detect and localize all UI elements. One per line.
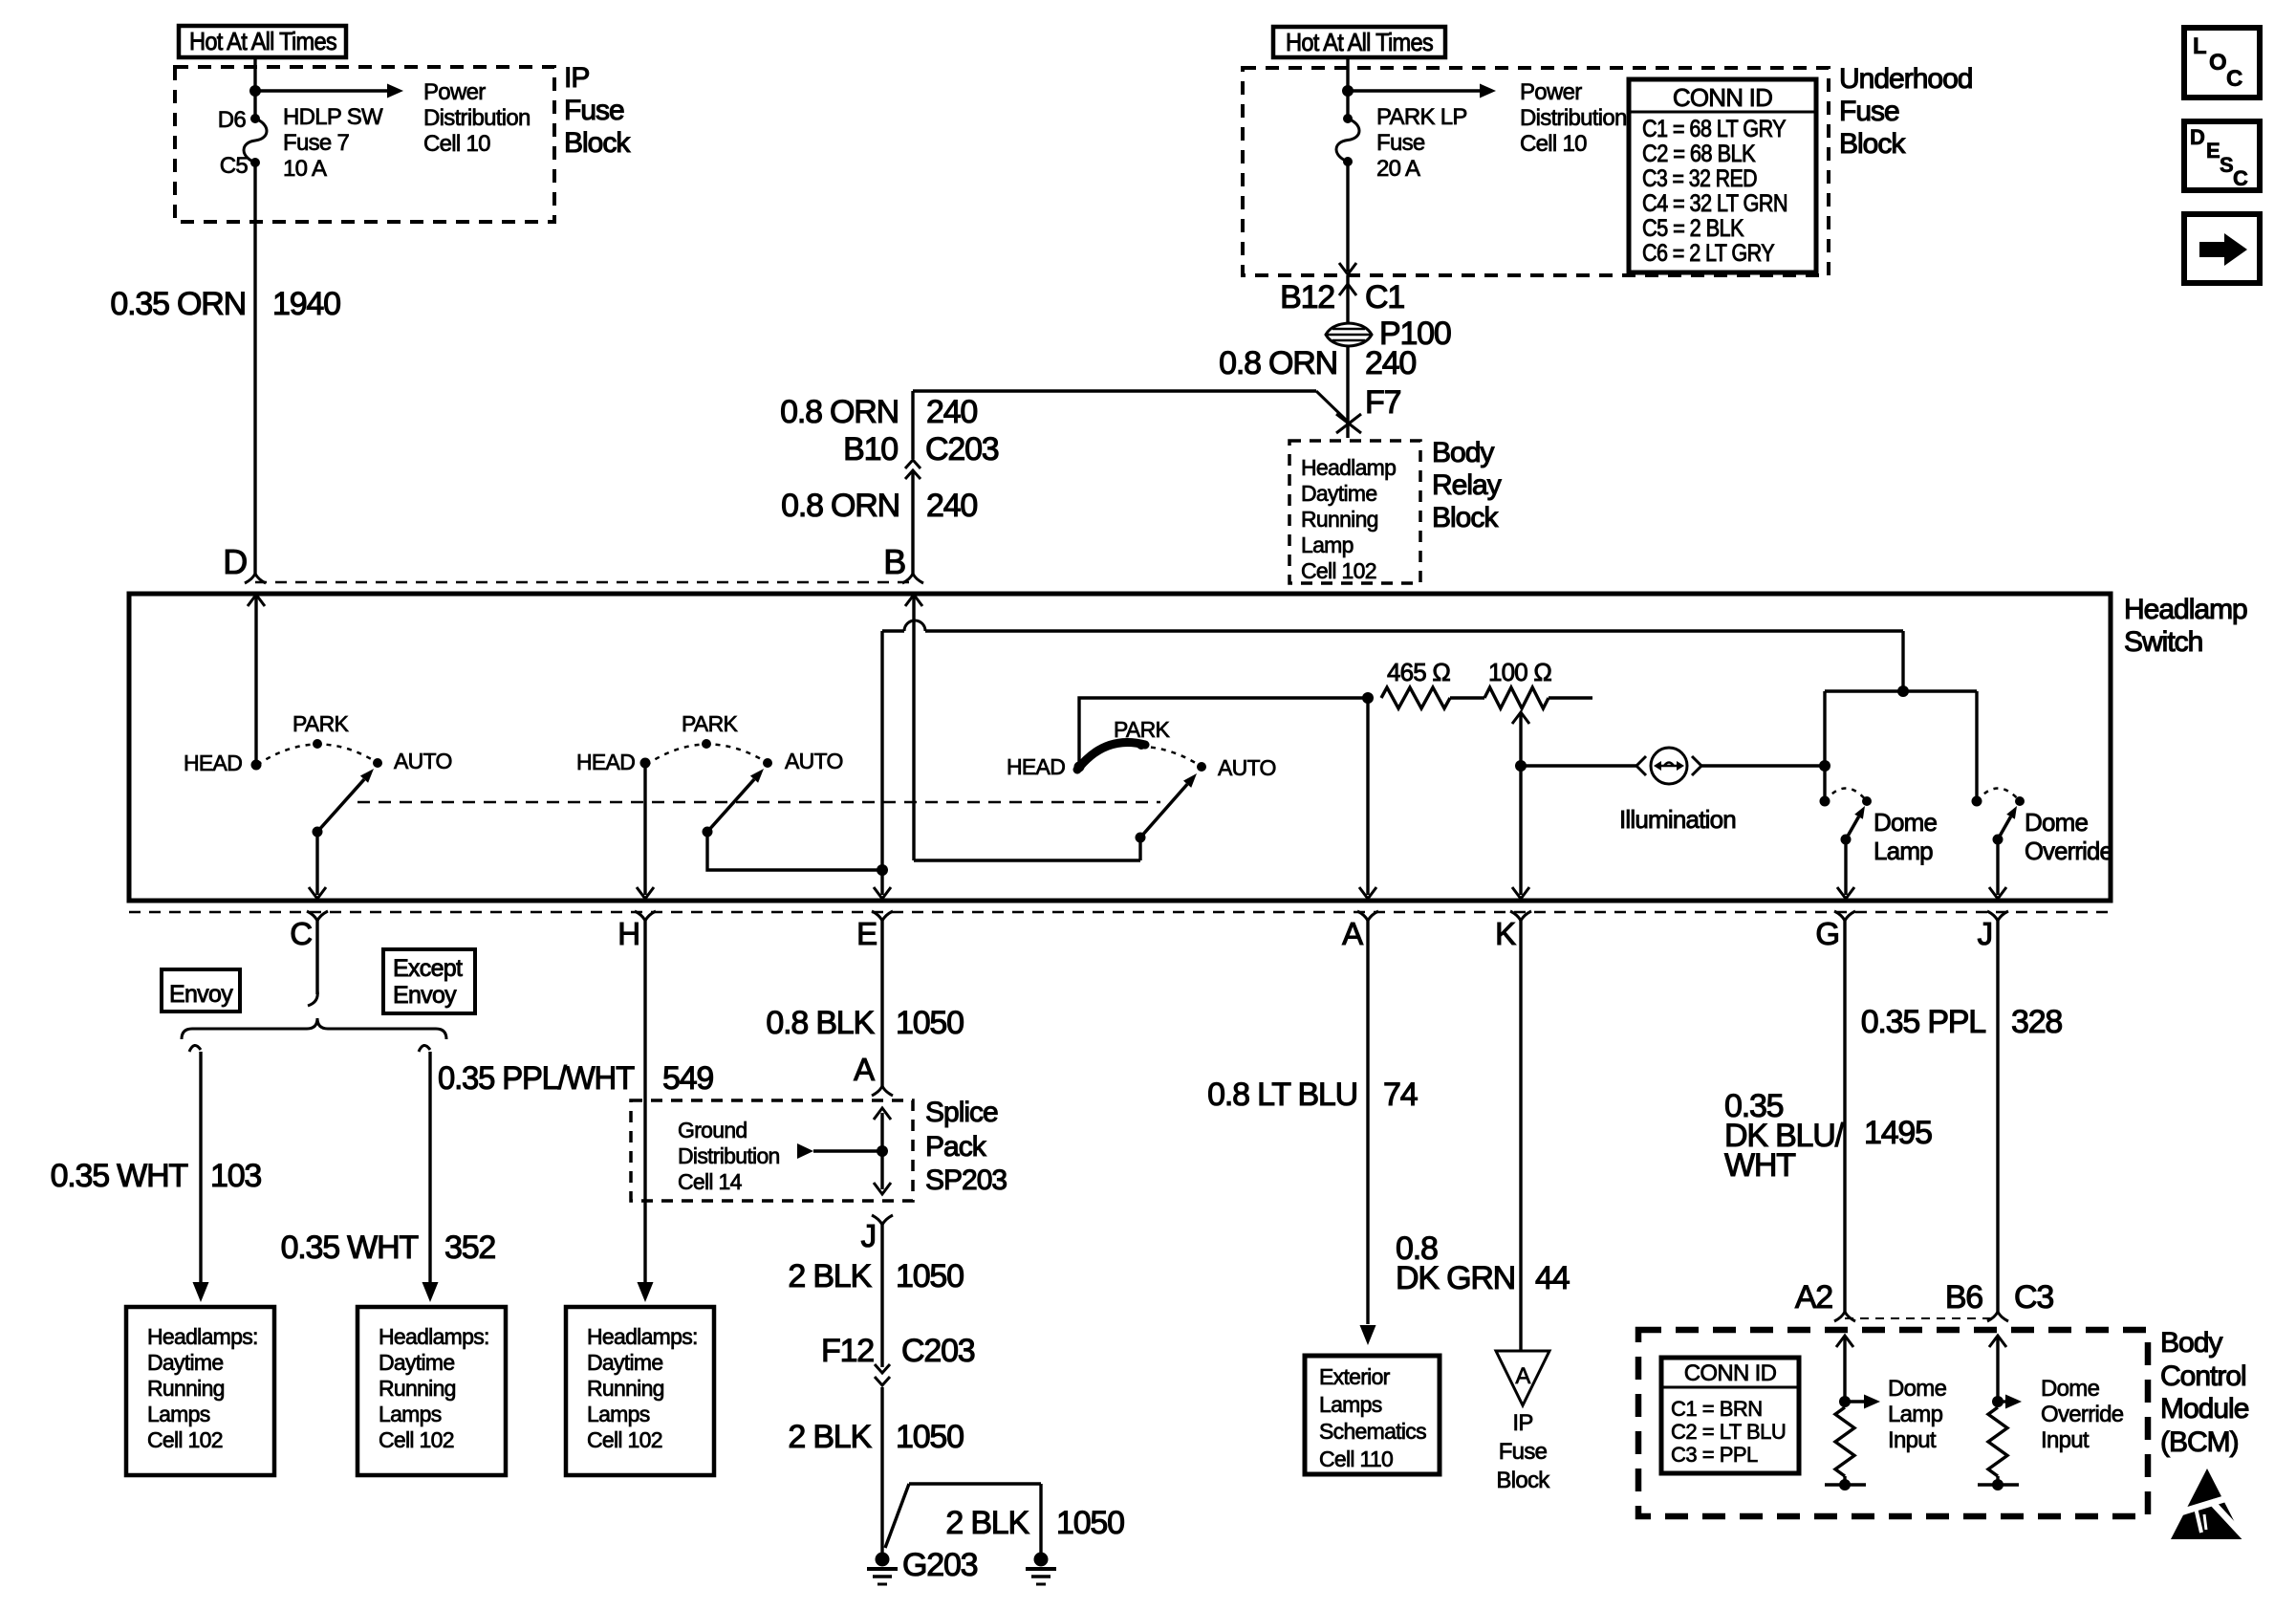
svg-text:Headlamps:: Headlamps: bbox=[147, 1324, 258, 1349]
svg-text:352: 352 bbox=[444, 1229, 495, 1266]
svg-text:C1 = BRN: C1 = BRN bbox=[1671, 1397, 1763, 1421]
svg-text:240: 240 bbox=[926, 488, 977, 524]
svg-text:Body: Body bbox=[2160, 1327, 2222, 1359]
svg-text:F12: F12 bbox=[821, 1333, 874, 1369]
svg-text:G: G bbox=[1815, 916, 1839, 951]
wire G branch to BCM A2 bbox=[1843, 921, 1846, 1312]
svg-text:SP203: SP203 bbox=[925, 1164, 1007, 1196]
switch3 PARK contact bbox=[1137, 740, 1146, 750]
svg-text:Fuse: Fuse bbox=[1839, 96, 1899, 127]
svg-text:C6 = 2 LT GRY: C6 = 2 LT GRY bbox=[1642, 240, 1775, 267]
svg-text:AUTO: AUTO bbox=[1218, 755, 1276, 780]
svg-text:Lamp: Lamp bbox=[1301, 533, 1354, 557]
svg-text:0.8 ORN: 0.8 ORN bbox=[781, 488, 899, 524]
wire: battery feed into underhood fuse block bbox=[1346, 57, 1349, 119]
splice pack arrow and bus bbox=[797, 1143, 813, 1159]
svg-text:Relay: Relay bbox=[1432, 469, 1502, 501]
terminal J fork bbox=[1987, 911, 2008, 921]
wire from illumination lamp to dome feed bbox=[1701, 764, 1825, 767]
svg-text:Daytime: Daytime bbox=[147, 1350, 223, 1375]
component box Exterior Lamps Schematics Cell 110 bbox=[1305, 1356, 1440, 1474]
svg-text:Module: Module bbox=[2160, 1393, 2249, 1425]
svg-text:Headlamp: Headlamp bbox=[1301, 455, 1396, 480]
svg-text:G203: G203 bbox=[902, 1547, 978, 1583]
wire: 0.8 ORN branch to C203 (horizontal) bbox=[913, 389, 1316, 392]
svg-text:HEAD: HEAD bbox=[1007, 754, 1065, 779]
svg-text:465 Ω: 465 Ω bbox=[1387, 658, 1450, 686]
connector triangle A (IP fuse block) bbox=[1496, 1351, 1549, 1405]
svg-text:Cell 14: Cell 14 bbox=[678, 1169, 743, 1194]
BCM pull resistor (dome lamp) bbox=[1835, 1407, 1854, 1476]
svg-text:Distribution: Distribution bbox=[423, 105, 531, 131]
switch1 output wire to C bbox=[315, 837, 318, 895]
svg-text:C: C bbox=[2226, 66, 2242, 92]
fuse PARK LP Fuse 20A element bbox=[1343, 114, 1353, 123]
svg-text:Fuse: Fuse bbox=[1499, 1439, 1548, 1465]
Body Control Module dashed outline bbox=[1638, 1330, 2148, 1516]
svg-text:Cell 102: Cell 102 bbox=[1301, 558, 1376, 583]
illumination lamp bulb bbox=[1651, 748, 1687, 784]
svg-text:Distribution: Distribution bbox=[678, 1143, 780, 1168]
svg-text:10 A: 10 A bbox=[283, 156, 327, 182]
svg-text:Cell 102: Cell 102 bbox=[587, 1427, 662, 1452]
wire to illumination lamp bbox=[1521, 764, 1636, 767]
svg-text:Cell 102: Cell 102 bbox=[379, 1427, 454, 1452]
BCM connector dashed line bbox=[1845, 1317, 1998, 1319]
wire Envoy branch 0.35 WHT 103 bbox=[189, 1045, 201, 1052]
svg-text:Lamp: Lamp bbox=[1874, 837, 1933, 865]
switch3 wiper pivot bbox=[1136, 833, 1146, 843]
in-line connector C203 (B10) bbox=[905, 460, 921, 468]
junction dot resistor rail / A drop bbox=[1362, 692, 1374, 704]
svg-text:2 BLK: 2 BLK bbox=[788, 1419, 872, 1455]
svg-text:IP: IP bbox=[1512, 1410, 1532, 1436]
terminal K fork bbox=[1510, 911, 1531, 921]
svg-text:C2 = LT BLU: C2 = LT BLU bbox=[1671, 1420, 1786, 1444]
svg-text:Headlamps:: Headlamps: bbox=[587, 1324, 698, 1349]
wire A branch 0.8 LT BLU 74 bbox=[1366, 921, 1369, 1324]
svg-text:2 BLK: 2 BLK bbox=[788, 1258, 872, 1295]
svg-text:Daytime: Daytime bbox=[1301, 481, 1376, 506]
svg-text:PARK LP: PARK LP bbox=[1376, 104, 1467, 130]
svg-text:B6: B6 bbox=[1945, 1279, 1982, 1316]
svg-text:Daytime: Daytime bbox=[379, 1350, 454, 1375]
in-line connector C203 (F12) bbox=[875, 1364, 890, 1373]
svg-text:Power: Power bbox=[1520, 79, 1582, 105]
svg-text:A2: A2 bbox=[1795, 1279, 1832, 1316]
svg-text:Envoy: Envoy bbox=[169, 981, 233, 1008]
svg-text:C4 = 32 LT GRN: C4 = 32 LT GRN bbox=[1642, 190, 1787, 217]
svg-text:K: K bbox=[1495, 916, 1516, 951]
svg-text:A: A bbox=[854, 1052, 875, 1087]
fork at node B bbox=[902, 574, 923, 583]
svg-text:C3 = 32 RED: C3 = 32 RED bbox=[1642, 165, 1757, 192]
svg-text:Cell 10: Cell 10 bbox=[1520, 131, 1587, 157]
svg-text:Block: Block bbox=[1432, 502, 1499, 533]
illumination lamp right chevron bbox=[1692, 756, 1701, 775]
svg-text:0.35 WHT: 0.35 WHT bbox=[281, 1229, 419, 1266]
dome override arm bbox=[1993, 835, 2004, 845]
icon box LOC bbox=[2184, 28, 2260, 98]
svg-text:Running: Running bbox=[1301, 507, 1378, 532]
terminal A fork bbox=[1357, 911, 1378, 921]
wire 2 BLK 1050 to ground G203 bbox=[880, 1387, 883, 1553]
switch3 AUTO contact bbox=[1197, 762, 1206, 772]
svg-text:Headlamp: Headlamp bbox=[2124, 594, 2247, 625]
junction dot illumination tap bbox=[1819, 760, 1830, 772]
svg-text:100 Ω: 100 Ω bbox=[1488, 658, 1551, 686]
dome override contacts bbox=[1972, 796, 1982, 807]
BCM dome override input wire with arrow bbox=[1989, 1336, 2006, 1347]
svg-text:PARK: PARK bbox=[682, 711, 738, 736]
svg-text:CONN ID: CONN ID bbox=[1673, 83, 1772, 112]
svg-text:H: H bbox=[617, 916, 639, 951]
svg-text:0.35 PPL/WHT: 0.35 PPL/WHT bbox=[438, 1060, 634, 1097]
terminal E fork bbox=[872, 911, 893, 921]
component box Headlamps DRL (Envoy) bbox=[126, 1307, 274, 1475]
svg-text:C: C bbox=[2233, 166, 2248, 190]
wire 0.8 ORN 240 from P100 to F7 bbox=[1346, 347, 1349, 438]
svg-text:44: 44 bbox=[1535, 1260, 1570, 1296]
svg-text:CONN ID: CONN ID bbox=[1684, 1360, 1777, 1386]
dome lamp switch dashed arc bbox=[1825, 789, 1867, 802]
svg-text:Cell 110: Cell 110 bbox=[1319, 1447, 1393, 1471]
svg-text:Override: Override bbox=[2025, 837, 2112, 865]
svg-text:Splice: Splice bbox=[925, 1097, 998, 1128]
dome lamp switch output to G bbox=[1844, 844, 1847, 895]
svg-text:240: 240 bbox=[926, 394, 977, 430]
IP Fuse Block dashed outline bbox=[175, 67, 554, 222]
wire 2 BLK 1050 below splice bbox=[872, 1215, 893, 1225]
svg-text:AUTO: AUTO bbox=[785, 749, 843, 773]
wire 0.8 ORN 240 (lower) to node B bbox=[911, 471, 914, 574]
svg-text:D6: D6 bbox=[218, 107, 247, 133]
CONN ID table (BCM) bbox=[1661, 1358, 1799, 1473]
ground G203 bbox=[876, 1553, 890, 1567]
svg-text:2 BLK: 2 BLK bbox=[945, 1505, 1029, 1541]
svg-text:HEAD: HEAD bbox=[184, 751, 242, 775]
svg-text:C203: C203 bbox=[925, 431, 999, 468]
svg-text:0.8 ORN: 0.8 ORN bbox=[1219, 345, 1337, 381]
switch1 wiper arm bbox=[313, 827, 323, 838]
arrow to Power Distribution Cell 10 (underhood) bbox=[1348, 89, 1481, 92]
svg-text:Cell 102: Cell 102 bbox=[147, 1427, 223, 1452]
switch3 wiper arm bbox=[1140, 784, 1187, 838]
svg-text:Dome: Dome bbox=[1888, 1376, 1947, 1402]
svg-text:Fuse 7: Fuse 7 bbox=[283, 130, 350, 156]
svg-text:240: 240 bbox=[1365, 345, 1416, 381]
label box: Hot At All Times (underhood feed) bbox=[1273, 27, 1445, 57]
CONN ID table (underhood fuse block) bbox=[1629, 79, 1816, 272]
dome override dashed arc bbox=[1977, 789, 2020, 802]
svg-text:S: S bbox=[2220, 153, 2233, 177]
svg-text:Fuse: Fuse bbox=[1376, 130, 1425, 156]
svg-text:C: C bbox=[290, 916, 312, 951]
Headlamp Switch box bbox=[129, 594, 2111, 901]
dome override output to J bbox=[1996, 844, 1999, 895]
wire between resistors bbox=[1450, 696, 1484, 699]
wire E branch 0.8 BLK 1050 bbox=[880, 921, 883, 1086]
wire C down to split bbox=[315, 921, 318, 994]
icon box DESC bbox=[2184, 121, 2260, 190]
svg-text:Running: Running bbox=[379, 1376, 456, 1401]
svg-text:0.8 BLK: 0.8 BLK bbox=[766, 1005, 875, 1041]
svg-text:1050: 1050 bbox=[1056, 1505, 1124, 1541]
wire 0.35 ORN 1940 from fuse C5 to node D bbox=[253, 163, 256, 574]
dome override feed drop bbox=[1975, 691, 1978, 801]
svg-text:1495: 1495 bbox=[1864, 1115, 1932, 1151]
wire branch to second ground bbox=[885, 1484, 909, 1548]
svg-text:0.35 WHT: 0.35 WHT bbox=[51, 1158, 188, 1194]
wire below box, pin B12 / C1 with up arrow bbox=[1346, 275, 1349, 322]
svg-text:Hot At All Times: Hot At All Times bbox=[189, 27, 337, 55]
svg-text:1050: 1050 bbox=[896, 1005, 964, 1041]
svg-text:Lamps: Lamps bbox=[147, 1402, 210, 1426]
svg-text:A: A bbox=[1515, 1363, 1530, 1389]
fork at node D bbox=[245, 574, 266, 583]
svg-text:Except: Except bbox=[393, 955, 463, 982]
switch1 dashed travel arc bbox=[257, 744, 378, 765]
label box Envoy bbox=[162, 969, 240, 1012]
svg-text:C1: C1 bbox=[1365, 279, 1404, 315]
svg-text:0.35 ORN: 0.35 ORN bbox=[110, 286, 246, 322]
switch2 dashed travel arc bbox=[646, 744, 768, 765]
switch2 PARK contact bbox=[702, 739, 711, 749]
component box Headlamps DRL (Except Envoy) bbox=[357, 1307, 506, 1475]
svg-text:Input: Input bbox=[2041, 1427, 2090, 1453]
terminal G fork bbox=[1834, 911, 1855, 921]
svg-text:74: 74 bbox=[1383, 1077, 1418, 1113]
svg-text:DK GRN: DK GRN bbox=[1396, 1260, 1515, 1296]
wire K wiper with up arrow bbox=[1519, 713, 1522, 895]
svg-text:C203: C203 bbox=[901, 1333, 975, 1369]
svg-text:Block: Block bbox=[1839, 128, 1906, 160]
svg-text:(BCM): (BCM) bbox=[2160, 1426, 2239, 1458]
switch2 AUTO contact bbox=[763, 758, 772, 768]
dome lamp switch arm bbox=[1841, 835, 1852, 845]
svg-text:J: J bbox=[1978, 916, 1992, 951]
svg-text:Cell 10: Cell 10 bbox=[423, 131, 490, 157]
switch1 HEAD contact bbox=[251, 760, 262, 771]
switch3 dashed travel arc bbox=[1140, 747, 1202, 767]
connector P100 pass-through symbol bbox=[1326, 323, 1372, 346]
svg-text:F7: F7 bbox=[1365, 384, 1401, 421]
svg-text:HEAD: HEAD bbox=[576, 750, 635, 774]
switch3 closed position thick arc bbox=[1077, 742, 1145, 770]
svg-text:Control: Control bbox=[2160, 1360, 2246, 1392]
dome lamp switch contacts bbox=[1820, 796, 1830, 807]
svg-text:C1 = 68 LT GRY: C1 = 68 LT GRY bbox=[1642, 116, 1787, 142]
switch3 HEAD contact bbox=[1074, 762, 1085, 772]
svg-text:Illumination: Illumination bbox=[1619, 805, 1736, 834]
junction dot dome feed bbox=[1897, 685, 1909, 697]
svg-text:J: J bbox=[861, 1218, 876, 1253]
svg-text:Dome: Dome bbox=[2041, 1376, 2100, 1402]
Body Relay Block dashed outline (Headlamp DRL cell 102) bbox=[1289, 441, 1420, 583]
dome switch feed wire with hop over B wire bbox=[882, 629, 904, 632]
dome lamp switch feed drop bbox=[1823, 691, 1826, 801]
junction dot K / illumination bbox=[1515, 760, 1527, 772]
switch1 feed wire from D with arrow bbox=[254, 597, 257, 765]
arrow to Power Distribution Cell 10 (IP) bbox=[255, 89, 388, 92]
svg-text:Block: Block bbox=[1496, 1468, 1550, 1493]
svg-text:Schematics: Schematics bbox=[1319, 1419, 1426, 1444]
svg-text:Lamp: Lamp bbox=[1888, 1402, 1943, 1427]
svg-text:Body: Body bbox=[1432, 437, 1494, 468]
junction dot on E wire bbox=[877, 864, 888, 876]
svg-text:Lamps: Lamps bbox=[587, 1402, 650, 1426]
terminal H fork bbox=[635, 911, 656, 921]
svg-text:D: D bbox=[223, 542, 247, 581]
svg-text:Dome: Dome bbox=[1874, 808, 1937, 837]
illumination lamp left chevron bbox=[1636, 756, 1646, 775]
svg-text:Lamps: Lamps bbox=[379, 1402, 442, 1426]
svg-text:Headlamps:: Headlamps: bbox=[379, 1324, 489, 1349]
junction node in IP fuse block bbox=[249, 85, 261, 97]
terminal C fork bbox=[307, 911, 328, 921]
Underhood Fuse Block dashed outline bbox=[1243, 68, 1829, 275]
svg-text:WHT: WHT bbox=[1724, 1147, 1795, 1184]
dashed connector line D-B above switch bbox=[255, 581, 914, 584]
svg-text:Underhood: Underhood bbox=[1839, 63, 1972, 95]
svg-text:Switch: Switch bbox=[2124, 626, 2202, 658]
svg-text:A: A bbox=[1342, 916, 1363, 951]
switch3 HEAD wire up to resistor rail bbox=[1079, 698, 1368, 762]
component box Headlamps DRL (H) bbox=[566, 1307, 714, 1475]
svg-text:PARK: PARK bbox=[292, 711, 349, 736]
junction node in underhood fuse block bbox=[1342, 85, 1354, 97]
svg-text:C3 = PPL: C3 = PPL bbox=[1671, 1443, 1758, 1467]
dashed terminal line below switch bbox=[129, 911, 2111, 914]
svg-text:Dome: Dome bbox=[2025, 808, 2088, 837]
svg-text:Block: Block bbox=[564, 127, 631, 159]
wire H branch 0.35 PPL/WHT 549 bbox=[643, 921, 646, 1282]
svg-text:0.8 ORN: 0.8 ORN bbox=[780, 394, 899, 430]
svg-text:Running: Running bbox=[587, 1376, 664, 1401]
resistor 465 ohm bbox=[1381, 687, 1450, 708]
svg-text:HDLP SW: HDLP SW bbox=[283, 104, 383, 130]
label box: Hot At All Times (IP feed) bbox=[179, 26, 346, 57]
mechanical linkage dashed line bbox=[357, 801, 1160, 804]
svg-text:Hot At All Times: Hot At All Times bbox=[1286, 28, 1434, 56]
svg-text:AUTO: AUTO bbox=[394, 749, 452, 773]
switch2 HEAD contact bbox=[640, 758, 651, 769]
svg-text:Ground: Ground bbox=[678, 1118, 747, 1142]
svg-text:0.8 LT BLU: 0.8 LT BLU bbox=[1207, 1077, 1357, 1113]
switch3 feed wire from B with arrow bbox=[912, 597, 915, 860]
ESD sensitive symbol bbox=[2171, 1469, 2243, 1539]
switch1 PARK contact bbox=[313, 739, 322, 749]
svg-text:C3: C3 bbox=[2014, 1279, 2053, 1316]
svg-text:1050: 1050 bbox=[896, 1258, 964, 1295]
svg-text:Pack: Pack bbox=[925, 1131, 987, 1163]
switch2 output wire to H bbox=[643, 768, 646, 895]
svg-text:Running: Running bbox=[147, 1376, 225, 1401]
svg-text:Exterior: Exterior bbox=[1319, 1364, 1391, 1389]
svg-text:E: E bbox=[2206, 139, 2220, 163]
dome feed tee bbox=[1825, 689, 1977, 692]
svg-text:0.35 PPL: 0.35 PPL bbox=[1861, 1004, 1986, 1040]
svg-text:PARK: PARK bbox=[1114, 717, 1170, 742]
fuse HDLP SW Fuse 7 10A element bbox=[250, 114, 260, 123]
wire after 100 ohm bbox=[1549, 696, 1592, 699]
svg-text:20 A: 20 A bbox=[1376, 156, 1420, 182]
BCM dome lamp input wire with arrow bbox=[1836, 1336, 1853, 1347]
svg-text:C5: C5 bbox=[220, 153, 249, 179]
svg-text:C2 = 68 BLK: C2 = 68 BLK bbox=[1642, 141, 1756, 167]
svg-text:1050: 1050 bbox=[896, 1419, 964, 1455]
svg-text:Lamps: Lamps bbox=[1319, 1392, 1382, 1417]
wire Except-Envoy branch 0.35 WHT 352 bbox=[419, 1045, 430, 1052]
svg-text:B: B bbox=[883, 542, 905, 581]
ground (second) bbox=[1034, 1553, 1049, 1567]
svg-text:Override: Override bbox=[2041, 1402, 2124, 1427]
switch1 AUTO contact bbox=[373, 758, 382, 768]
resistor 100 ohm bbox=[1484, 687, 1549, 708]
svg-text:Daytime: Daytime bbox=[587, 1350, 662, 1375]
svg-text:B10: B10 bbox=[843, 431, 898, 468]
svg-text:549: 549 bbox=[662, 1060, 713, 1097]
wire J branch to BCM C3 bbox=[1996, 921, 1999, 1312]
svg-text:O: O bbox=[2209, 50, 2226, 76]
split brace bbox=[182, 1018, 446, 1039]
svg-text:Envoy: Envoy bbox=[393, 982, 457, 1009]
wire A output drop bbox=[1366, 698, 1369, 895]
switch2 arm wire to E node bbox=[707, 837, 879, 870]
svg-text:L: L bbox=[2193, 33, 2206, 59]
wire: battery feed into IP fuse block bbox=[253, 57, 256, 119]
svg-text:D: D bbox=[2190, 125, 2204, 149]
Splice Pack SP203 dashed outline bbox=[631, 1100, 913, 1201]
svg-text:B12: B12 bbox=[1280, 279, 1334, 315]
svg-text:Input: Input bbox=[1888, 1427, 1937, 1453]
wire: fuse output to box edge with exit arrow bbox=[1346, 162, 1349, 272]
svg-text:103: 103 bbox=[210, 1158, 261, 1194]
switch2 wiper arm bbox=[703, 827, 713, 838]
svg-text:C5 = 2 BLK: C5 = 2 BLK bbox=[1642, 215, 1744, 242]
wire K branch 0.8 DK GRN 44 bbox=[1519, 921, 1522, 1350]
svg-text:Fuse: Fuse bbox=[564, 95, 624, 126]
svg-text:IP: IP bbox=[564, 62, 589, 94]
svg-text:Distribution: Distribution bbox=[1520, 105, 1627, 131]
wire E vertical inside switch bbox=[880, 631, 883, 895]
icon box arrow bbox=[2184, 214, 2260, 283]
wire: 0.8 ORN 240 down to node B bbox=[911, 391, 914, 459]
wire: diagonal splice into F7 wire bbox=[1316, 391, 1348, 422]
svg-text:328: 328 bbox=[2011, 1004, 2062, 1040]
BCM pull resistor (dome override) bbox=[1988, 1407, 2007, 1476]
svg-text:1940: 1940 bbox=[272, 286, 340, 322]
svg-text:Power: Power bbox=[423, 79, 486, 105]
svg-text:E: E bbox=[856, 916, 877, 951]
label box Except Envoy bbox=[383, 949, 475, 1013]
